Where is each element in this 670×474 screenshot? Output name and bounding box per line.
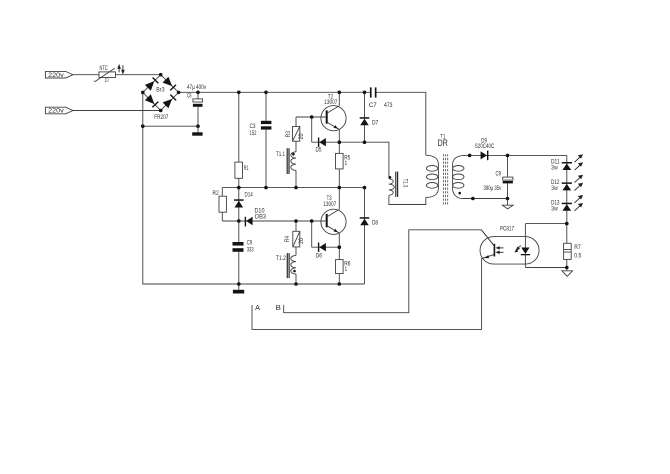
svg-text:13007: 13007 (323, 202, 337, 208)
svg-text:C8: C8 (187, 93, 192, 99)
svg-text:R3: R3 (286, 131, 292, 138)
svg-text:R7: R7 (574, 245, 581, 251)
svg-text:47µ 400v: 47µ 400v (187, 85, 206, 91)
svg-text:473: 473 (384, 103, 393, 109)
svg-text:D8: D8 (372, 220, 379, 226)
svg-text:333: 333 (247, 247, 254, 253)
svg-text:T1.3: T1.3 (401, 179, 407, 188)
svg-text:D6: D6 (316, 253, 323, 259)
svg-text:PC817: PC817 (500, 226, 514, 232)
svg-text:10: 10 (105, 78, 109, 84)
svg-text:Br3: Br3 (156, 88, 165, 94)
svg-text:20: 20 (299, 237, 305, 244)
svg-text:B: B (276, 303, 281, 312)
svg-text:T1.1: T1.1 (276, 152, 285, 158)
svg-text:R1: R1 (244, 166, 249, 172)
svg-text:220v: 220v (48, 109, 64, 115)
svg-text:D10: D10 (255, 208, 266, 214)
svg-text:C7: C7 (369, 103, 377, 109)
svg-text:T1.2: T1.2 (276, 256, 287, 262)
svg-text:220v: 220v (48, 73, 64, 79)
svg-text:3w: 3w (551, 166, 558, 172)
svg-text:152: 152 (250, 131, 257, 137)
svg-text:C9: C9 (496, 171, 502, 177)
svg-text:D7: D7 (372, 120, 379, 126)
svg-text:0.5: 0.5 (574, 253, 582, 259)
svg-text:D5: D5 (316, 148, 323, 154)
svg-text:DR: DR (438, 138, 449, 148)
svg-text:C9: C9 (247, 241, 253, 247)
svg-text:13007: 13007 (324, 100, 338, 106)
svg-text:3w: 3w (551, 206, 558, 212)
svg-text:3w: 3w (551, 186, 558, 192)
svg-text:DB3: DB3 (255, 215, 267, 221)
svg-text:C3: C3 (250, 124, 257, 130)
svg-text:D14: D14 (245, 193, 254, 199)
svg-text:390µ 35v: 390µ 35v (484, 186, 502, 192)
svg-text:FR207: FR207 (154, 115, 169, 121)
svg-text:S20C40C: S20C40C (475, 144, 495, 150)
svg-text:R4: R4 (285, 235, 291, 242)
svg-text:NTC: NTC (100, 66, 109, 72)
svg-text:20: 20 (299, 133, 305, 140)
svg-text:R2: R2 (213, 191, 220, 197)
